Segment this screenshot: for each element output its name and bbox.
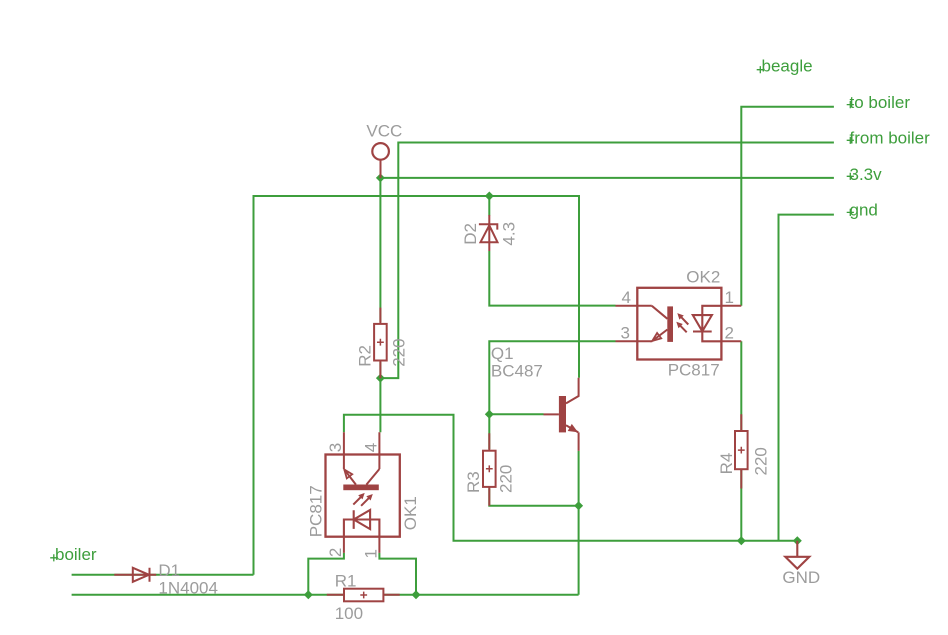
svg-text:from boiler: from boiler <box>850 129 931 148</box>
svg-text:1: 1 <box>725 288 734 307</box>
svg-text:3: 3 <box>621 324 630 343</box>
svg-text:R3: R3 <box>464 471 483 493</box>
svg-text:220: 220 <box>751 447 770 475</box>
svg-text:boiler: boiler <box>55 545 97 564</box>
svg-text:Q1: Q1 <box>491 344 514 363</box>
svg-text:100: 100 <box>335 604 363 623</box>
svg-text:220: 220 <box>389 338 408 366</box>
svg-text:R2: R2 <box>355 345 374 367</box>
svg-text:R1: R1 <box>335 571 357 590</box>
svg-text:PC817: PC817 <box>668 361 720 380</box>
svg-text:gnd: gnd <box>850 201 878 220</box>
svg-text:4.3: 4.3 <box>499 222 518 246</box>
svg-text:BC487: BC487 <box>491 361 543 380</box>
svg-text:PC817: PC817 <box>306 485 325 537</box>
svg-text:OK1: OK1 <box>401 496 420 530</box>
svg-text:3: 3 <box>326 443 345 452</box>
svg-text:1: 1 <box>362 549 381 558</box>
svg-text:D2: D2 <box>461 223 480 245</box>
svg-text:4: 4 <box>362 443 381 452</box>
svg-text:VCC: VCC <box>366 122 402 141</box>
svg-text:220: 220 <box>497 465 516 493</box>
svg-text:to boiler: to boiler <box>850 93 911 112</box>
svg-text:GND: GND <box>782 568 820 587</box>
svg-text:2: 2 <box>326 548 345 557</box>
svg-text:D1: D1 <box>158 561 180 580</box>
svg-text:1N4004: 1N4004 <box>158 578 218 597</box>
svg-text:R4: R4 <box>717 453 736 475</box>
svg-text:3.3v: 3.3v <box>850 165 883 184</box>
svg-text:OK2: OK2 <box>686 268 720 287</box>
svg-text:beagle: beagle <box>762 56 813 75</box>
svg-text:2: 2 <box>725 324 734 343</box>
svg-text:4: 4 <box>622 288 631 307</box>
